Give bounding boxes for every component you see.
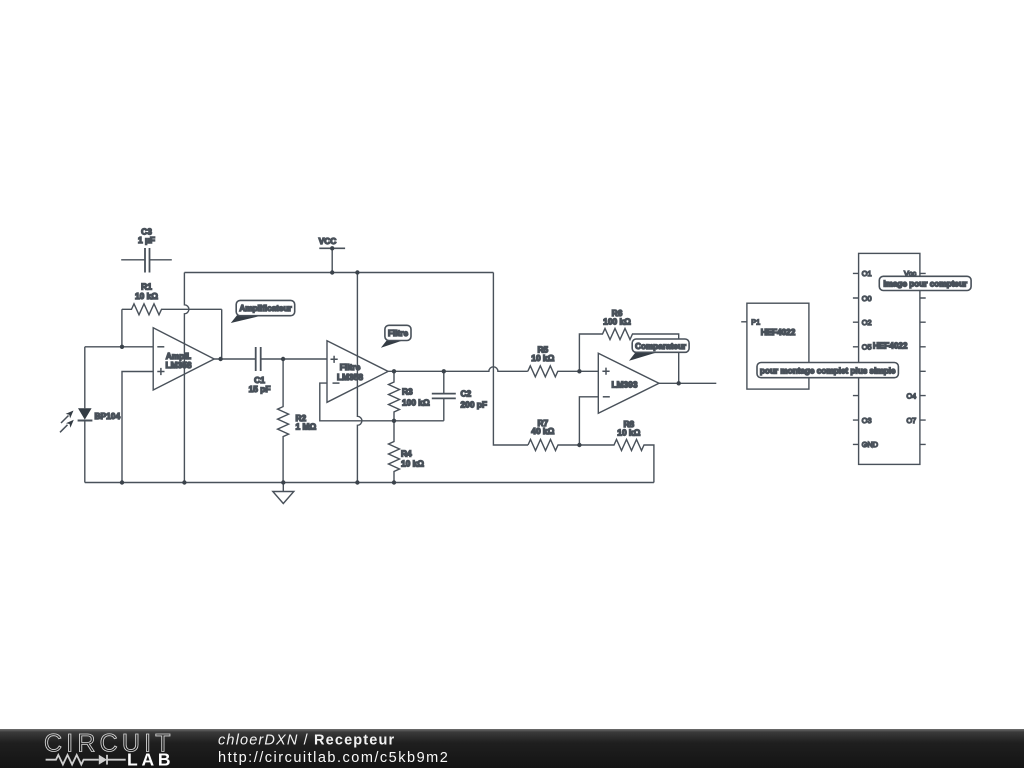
resistor R4 — [389, 421, 425, 483]
wire photodiode cathode to rail — [84, 421, 86, 483]
svg-text:LM358: LM358 — [337, 372, 363, 382]
svg-text:LAB: LAB — [127, 749, 174, 768]
wire op-amp U2 supply (hops feedback) — [357, 273, 362, 483]
svg-text:10 kΩ: 10 kΩ — [135, 291, 158, 301]
capacitor C1 — [249, 347, 271, 394]
logo resistor-diode glyph — [46, 755, 126, 765]
svg-text:O0: O0 — [862, 294, 872, 303]
wire U2 minus feedback loop — [320, 383, 444, 421]
wire R1 left to minus node — [121, 309, 123, 347]
svg-text:Filtre: Filtre — [340, 362, 361, 372]
svg-text:VCC: VCC — [319, 236, 337, 246]
wire ground rail — [85, 482, 654, 484]
svg-text:O4: O4 — [906, 391, 916, 400]
callout Comparateur — [629, 339, 689, 361]
photodiode light arrow 1 — [61, 411, 74, 424]
op-amp U3 LM393 — [598, 353, 659, 413]
svg-text:BP104: BP104 — [95, 411, 121, 421]
resistor R3 — [389, 371, 430, 420]
svg-text:O1: O1 — [862, 269, 872, 278]
op-amp U2 Filtre LM358 — [327, 341, 388, 403]
callout pour montage complet plus simple — [757, 363, 898, 378]
IC P1 HEF4022 — [741, 303, 809, 389]
bottom bar — [0, 729, 1024, 768]
svg-text:10 kΩ: 10 kΩ — [617, 428, 640, 438]
svg-text:100 kΩ: 100 kΩ — [603, 316, 631, 326]
wire VCC branch down to R7 — [493, 273, 528, 446]
svg-text:HEF4022: HEF4022 — [873, 341, 908, 350]
svg-text:R3: R3 — [402, 386, 413, 396]
resistor R5 — [528, 344, 599, 376]
IC HEF4022 — [853, 253, 926, 464]
svg-text:O3: O3 — [862, 416, 872, 425]
resistor R6 feedback — [579, 308, 678, 384]
wire photodiode anode — [84, 347, 86, 409]
svg-text:200 pF: 200 pF — [461, 399, 488, 409]
svg-text:10 kΩ: 10 kΩ — [531, 353, 554, 363]
resistor R2 — [278, 359, 317, 483]
wire U2 output to R5 (hops vertical) — [388, 367, 528, 372]
wire minus input U1 — [85, 346, 153, 348]
wire C1 to plus input U2 — [261, 358, 327, 360]
wire feedback R1 to output — [221, 309, 223, 359]
photodiode BP104 — [78, 408, 121, 421]
wire LM393 output — [659, 382, 716, 384]
svg-text:Amplificateur: Amplificateur — [239, 304, 292, 313]
capacitor C3 — [121, 226, 172, 272]
svg-text:O2: O2 — [862, 318, 872, 327]
svg-text:P1: P1 — [751, 318, 760, 327]
resistor R1 — [122, 282, 222, 315]
svg-text:1 µF: 1 µF — [138, 235, 155, 245]
svg-text:C2: C2 — [461, 388, 472, 398]
resistor R7 — [528, 418, 579, 451]
wire LM393 minus input — [579, 397, 598, 445]
ground — [273, 483, 294, 504]
callout Amplificateur — [231, 300, 295, 323]
svg-text:GND: GND — [862, 440, 878, 449]
svg-text:40 kΩ: 40 kΩ — [531, 426, 554, 436]
wire plus input U1 to rail — [122, 372, 153, 483]
svg-text:http://circuitlab.com/c5kb9m2: http://circuitlab.com/c5kb9m2 — [218, 750, 449, 766]
svg-text:O7: O7 — [906, 416, 916, 425]
power VCC symbol — [319, 236, 345, 273]
resistor R8 — [579, 419, 654, 483]
svg-text:10 kΩ: 10 kΩ — [401, 459, 424, 469]
svg-text:Comparateur: Comparateur — [635, 342, 687, 351]
svg-text:100 kΩ: 100 kΩ — [402, 398, 430, 408]
wire VCC rail top — [184, 272, 493, 274]
svg-text:15 pF: 15 pF — [249, 384, 271, 394]
svg-text:HEF4022: HEF4022 — [761, 328, 796, 337]
wire U1 output to C1 — [214, 358, 256, 360]
svg-text:Filtre: Filtre — [388, 329, 408, 338]
svg-text:1 MΩ: 1 MΩ — [296, 422, 317, 432]
svg-text:R4: R4 — [401, 449, 412, 459]
svg-text:chloerDXN / Recepteur: chloerDXN / Recepteur — [218, 732, 395, 748]
svg-text:LM393: LM393 — [611, 379, 637, 389]
svg-text:O5: O5 — [862, 343, 872, 352]
wire op-amp U1 supply (hops R1) — [184, 273, 189, 483]
callout image pour compteur — [879, 276, 971, 290]
svg-text:image pour compteur: image pour compteur — [883, 280, 968, 289]
callout Filtre — [381, 325, 411, 348]
photodiode light arrow 2 — [60, 420, 74, 433]
svg-text:LM358: LM358 — [165, 360, 191, 370]
svg-text:pour montage complet plus simp: pour montage complet plus simple — [760, 366, 896, 375]
op-amp U1 Ampli. LM358 — [153, 328, 214, 390]
node junction dots — [120, 270, 681, 484]
capacitor C2 — [432, 371, 487, 421]
